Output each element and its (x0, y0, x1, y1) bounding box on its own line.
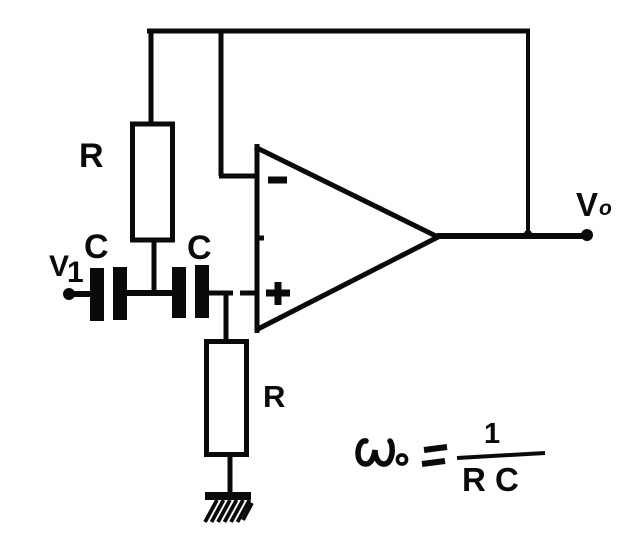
svg-text:o: o (599, 197, 612, 220)
capacitor C2 (172, 265, 209, 318)
wire C1 to C2 (126, 290, 174, 296)
svg-text:C: C (187, 229, 212, 267)
svg-text:1: 1 (67, 256, 84, 289)
wire R2 to ground (228, 457, 233, 496)
wire node between caps up to R1 (152, 240, 157, 293)
label formula equals (422, 447, 447, 464)
wire from rail down to resistor R1 (149, 29, 154, 123)
svg-text:V: V (576, 186, 598, 223)
label formula omega (358, 441, 392, 464)
label formula o subscript (397, 455, 406, 464)
op-amp U1 (255, 144, 438, 333)
wire op-amp output (437, 233, 589, 239)
svg-text:1: 1 (484, 418, 500, 450)
wire input to C1 (69, 291, 92, 297)
svg-text:C: C (84, 228, 109, 266)
node V1 input terminal (63, 288, 75, 300)
node Vo terminal (581, 229, 593, 241)
op-amp plus pin label (266, 282, 290, 305)
resistor R2 (207, 342, 247, 455)
label formula fraction bar (457, 453, 545, 458)
ground (205, 492, 252, 522)
wire C2 to non-inverting input (208, 291, 257, 296)
svg-text:V: V (49, 250, 69, 283)
node output junction (524, 230, 532, 238)
wire top feedback rail (147, 29, 530, 34)
resistor R1 (133, 124, 173, 240)
svg-text:R C: R C (462, 461, 519, 498)
wire node down to resistor R2 (224, 293, 229, 342)
capacitor C1 (90, 267, 127, 321)
svg-text:R: R (263, 379, 285, 414)
op-amp minus pin label (268, 177, 287, 184)
svg-text:R: R (79, 137, 104, 175)
wire rail down to output node (526, 29, 530, 236)
wire feedback rail down to inverting input (219, 29, 258, 176)
